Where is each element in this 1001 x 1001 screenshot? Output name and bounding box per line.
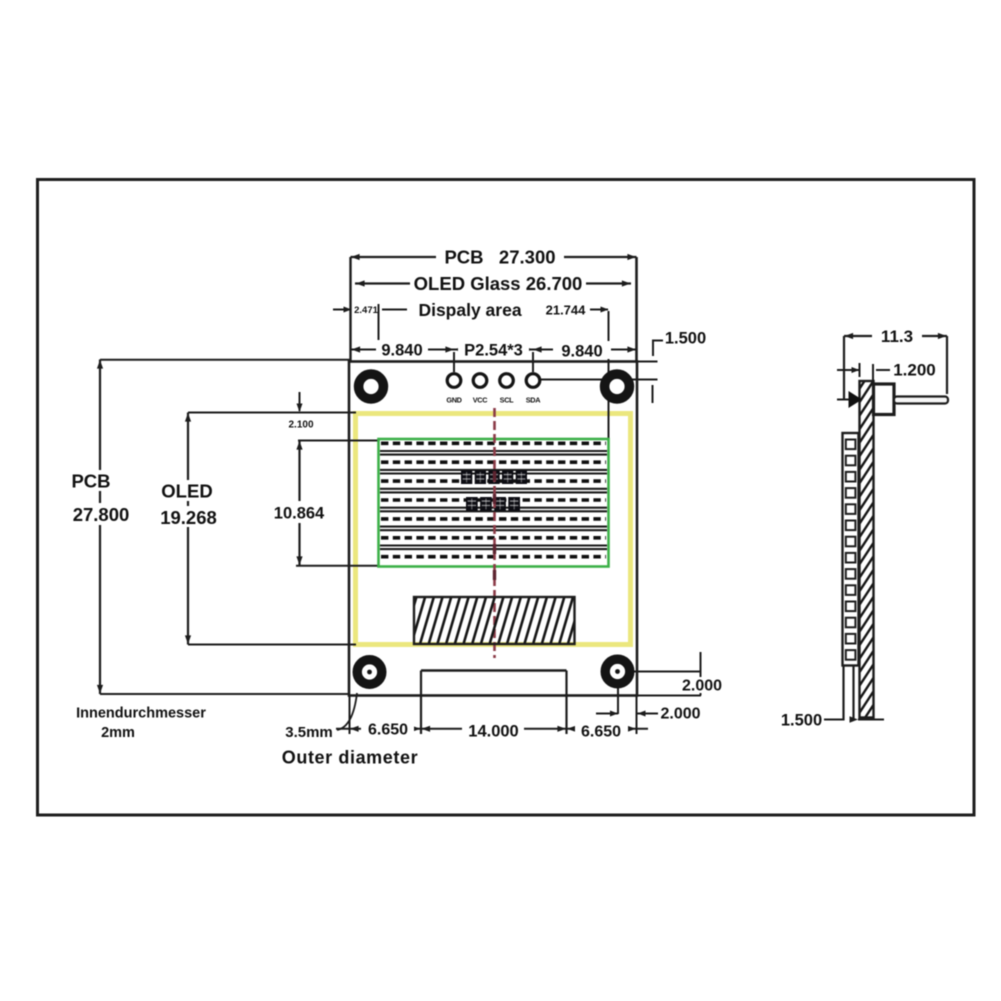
svg-text:Dispaly area: Dispaly area bbox=[418, 300, 521, 320]
svg-text:Outer diameter: Outer diameter bbox=[282, 748, 418, 768]
svg-text:2.000: 2.000 bbox=[682, 678, 722, 695]
svg-text:VCC: VCC bbox=[473, 396, 489, 405]
svg-text:Innendurchmesser: Innendurchmesser bbox=[76, 706, 206, 722]
svg-text:21.744: 21.744 bbox=[546, 303, 587, 318]
svg-text:PCB: PCB bbox=[71, 471, 110, 492]
svg-text:2.471: 2.471 bbox=[354, 305, 378, 316]
svg-text:1.500: 1.500 bbox=[665, 330, 706, 348]
svg-text:SCL: SCL bbox=[500, 396, 515, 405]
svg-text:27.800: 27.800 bbox=[73, 504, 130, 525]
svg-text:14.000: 14.000 bbox=[468, 723, 518, 741]
svg-text:6.650: 6.650 bbox=[368, 722, 408, 739]
svg-text:GND: GND bbox=[446, 396, 461, 405]
svg-text:19.268: 19.268 bbox=[160, 507, 217, 528]
svg-text:1.200: 1.200 bbox=[893, 361, 936, 380]
svg-text:6.650: 6.650 bbox=[581, 724, 621, 741]
svg-text:11.3: 11.3 bbox=[881, 327, 913, 346]
svg-text:P2.54*3: P2.54*3 bbox=[464, 342, 523, 360]
svg-text:SDA: SDA bbox=[526, 396, 542, 405]
svg-text:PCB 27.300: PCB 27.300 bbox=[444, 247, 555, 268]
svg-text:OLED Glass 26.700: OLED Glass 26.700 bbox=[414, 273, 583, 294]
svg-text:2.100: 2.100 bbox=[288, 420, 313, 431]
svg-text:9.840: 9.840 bbox=[381, 342, 422, 360]
svg-text:2mm: 2mm bbox=[101, 725, 135, 741]
svg-text:9.840: 9.840 bbox=[561, 343, 602, 361]
svg-text:OLED: OLED bbox=[161, 481, 212, 502]
svg-text:10.864: 10.864 bbox=[274, 505, 325, 523]
svg-text:2.000: 2.000 bbox=[660, 706, 700, 723]
svg-text:1.500: 1.500 bbox=[781, 712, 822, 730]
svg-text:3.5mm: 3.5mm bbox=[285, 724, 333, 741]
